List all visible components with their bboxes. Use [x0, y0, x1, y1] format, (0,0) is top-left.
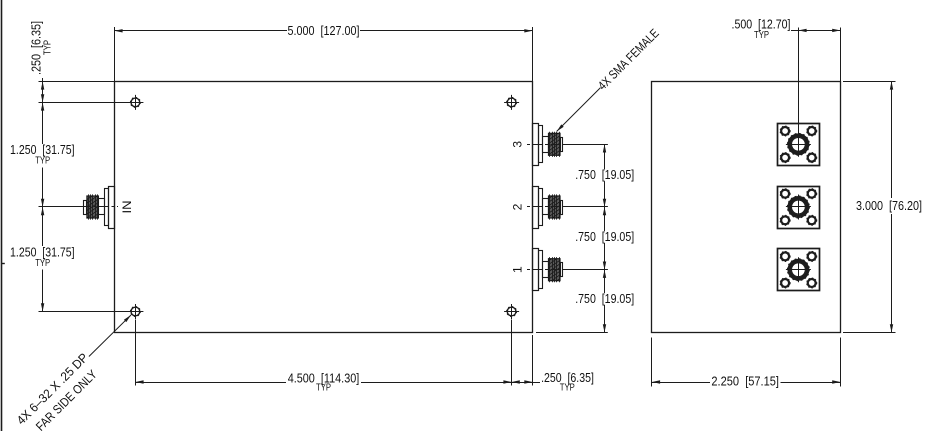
svg-text:.750 [19.05]: .750 [19.05] [575, 168, 634, 182]
svg-text:.750 [19.05]: .750 [19.05] [575, 292, 634, 306]
svg-text:TYP: TYP [35, 258, 50, 269]
leader note 4X 6-32 X .25 DP FAR SIDE ONLY [89, 315, 131, 356]
svg-text:3: 3 [510, 141, 524, 148]
dimension .250 [6.35] TYP (bottom) [532, 335, 534, 386]
dimension .250 [6.35] TYP (left top) [39, 81, 115, 83]
SMA connector J2 (port 2) [533, 187, 539, 229]
svg-text:.750 [19.05]: .750 [19.05] [575, 230, 634, 244]
svg-text:3.000 [76.20]: 3.000 [76.20] [856, 199, 922, 213]
centre line port 3 [527, 144, 565, 146]
end view body outline [652, 82, 841, 333]
svg-text:IN: IN [120, 201, 134, 214]
end-view SMA flange (port 3) [778, 124, 820, 166]
end-view SMA flange (port 2) [778, 187, 820, 229]
svg-text:2.250 [57.15]: 2.250 [57.15] [711, 374, 779, 388]
centre line port 1 [527, 269, 565, 271]
svg-text:TYP: TYP [316, 383, 331, 394]
svg-text:TYP: TYP [754, 30, 769, 41]
mounting hole bottom-left [131, 307, 140, 316]
svg-text:2: 2 [510, 203, 524, 210]
front view body outline [115, 82, 533, 333]
SMA connector J1 (port 1) [533, 249, 539, 291]
svg-text:5.000 [127.00]: 5.000 [127.00] [288, 24, 360, 38]
mounting hole bottom-right [507, 307, 516, 316]
dimension 1.250 [31.75] TYP (lower) [41, 207, 44, 215]
sheet border centre tick [1, 263, 5, 265]
centre line port 2 [527, 206, 565, 208]
leader note 4X SMA FEMALE [557, 88, 601, 132]
svg-text:TYP: TYP [35, 156, 50, 167]
SMA connector J3 (port 3) [533, 124, 539, 166]
svg-text:TYP: TYP [560, 383, 575, 394]
dimension 1.250 [31.75] TYP (upper) [41, 102, 44, 110]
sheet border left edge [1, 0, 3, 431]
dimension 5.000 [127.00] [114, 27, 116, 81]
end-view SMA flange (port 1) [778, 249, 820, 291]
mounting hole top-right [507, 98, 516, 107]
SMA connector IN (input) [109, 187, 115, 229]
svg-text:.250 [6.35]: .250 [6.35] [30, 21, 44, 75]
dimension 4.500 [114.30] TYP [135, 320, 137, 386]
dimension 2.250 [57.15] [651, 338, 653, 387]
dimension .500 [12.70] TYP [798, 28, 800, 157]
svg-text:1: 1 [510, 266, 524, 273]
svg-text:TYP: TYP [43, 40, 54, 55]
mounting hole top-left [131, 98, 140, 107]
dimensions .750 [19.05] x3 [565, 144, 608, 146]
dimension 3.000 [76.20] [843, 81, 896, 83]
centre line input connector [81, 206, 118, 208]
